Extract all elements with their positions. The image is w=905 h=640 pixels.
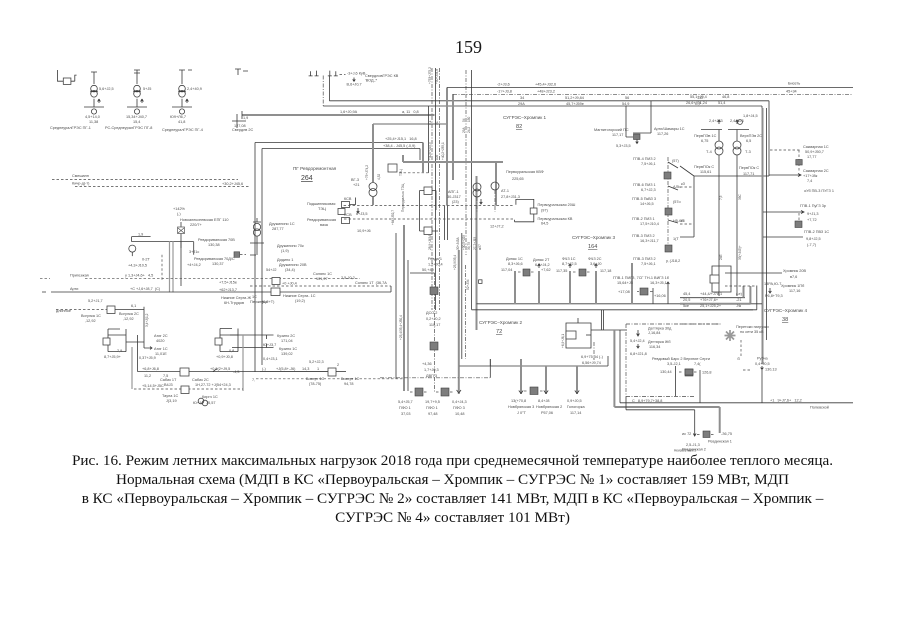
transformer winding (179, 85, 186, 92)
svg-text:+45,4+J32,6: +45,4+J32,6 (535, 83, 556, 87)
wire from L4 down (428, 106, 430, 173)
svg-text:0,8: 0,8 (229, 349, 234, 353)
svg-text:5,2+J2,3: 5,2+J2,3 (309, 360, 324, 364)
svg-text:⊙: ⊙ (737, 357, 740, 361)
svg-text:27,8+J31,3: 27,8+J31,3 (501, 195, 520, 199)
svg-text:Новоалексеевская ЕПГ 110: Новоалексеевская ЕПГ 110 (180, 218, 228, 222)
svg-text:а, 11 0,8: а, 11 0,8 (402, 110, 419, 114)
wire (dashed) (465, 265, 467, 359)
wire (thick feeder) (422, 143, 424, 174)
svg-text:ДВП 3: ДВП 3 (426, 374, 437, 378)
wire (dashed) (344, 218, 515, 220)
lower cross line and PFO loads (380, 377, 490, 379)
svg-text:Динас 2Т: Динас 2Т (533, 258, 550, 262)
wire (90, 90, 98, 92)
svg-text:(23): (23) (452, 200, 459, 204)
svg-text:+17+J8к: +17+J8к (803, 174, 818, 178)
transformer winding (179, 91, 186, 98)
Sakmarnaya 2S (769, 174, 801, 177)
svg-text:3,5-J2,1: 3,5-J2,1 (667, 362, 681, 366)
svg-text:11,2: 11,2 (144, 374, 151, 378)
transformer winding (733, 141, 741, 149)
wire (115, 309, 144, 311)
svg-text:Ревдориванская 70Д/С: Ревдориванская 70Д/С (194, 257, 235, 261)
svg-text:ПервПОк С: ПервПОк С (739, 166, 759, 170)
svg-text:6,9+J4,2: 6,9+J4,2 (535, 263, 550, 267)
transformer winding (91, 91, 98, 98)
transformer VG-3 (369, 183, 377, 191)
svg-text:33(+J45)+: 33(+J45)+ (738, 245, 742, 260)
svg-text:Ревдориванская 70В: Ревдориванская 70В (198, 238, 235, 242)
svg-text:45+34: 45+34 (786, 90, 797, 94)
wire (178, 228, 184, 233)
svg-text:3С: 3С (435, 120, 439, 125)
svg-text:ВерхПЭв 2С: ВерхПЭв 2С (740, 134, 762, 138)
wire (91, 72, 97, 84)
transformer PG-8 (126, 70, 151, 124)
svg-text:0,37+J5,9: 0,37+J5,9 (139, 356, 156, 360)
svg-text:(,): (,) (177, 212, 181, 216)
wire (668, 162, 678, 168)
svg-text:Пригезжая: Пригезжая (70, 274, 89, 278)
svg-text:ГПВ-4 ПИЗ 2: ГПВ-4 ПИЗ 2 (633, 157, 656, 161)
transformer winding (134, 85, 141, 92)
wire (dashed) (798, 213, 800, 221)
svg-text:Вогулка 1С: Вогулка 1С (81, 314, 101, 318)
svg-text:+44,4/+J78,1: +44,4/+J78,1 (700, 292, 722, 296)
svg-text:(19,2): (19,2) (295, 299, 306, 303)
load box (703, 431, 710, 438)
svg-text:19,7+9,5: 19,7+9,5 (425, 400, 440, 404)
svg-text:-72 +J(54+24,3: -72 +J(54+24,3 (205, 383, 231, 387)
gray feeder down E (452, 94, 454, 180)
svg-text:Р6,8+Т9,3: Р6,8+Т9,3 (765, 294, 783, 298)
svg-text:0,4+J3,1: 0,4+J3,1 (263, 357, 278, 361)
wire (thick feeder) (680, 303, 751, 305)
load box (665, 245, 672, 252)
svg-text:Полевской: Полевской (810, 406, 829, 410)
wire to Polevskoy thin (620, 330, 853, 403)
schematic groups inserted here (50, 69, 253, 132)
svg-text:+40,2+J35,1: +40,2+J35,1 (441, 142, 445, 160)
svg-text:СУГРЭС–Хромпик 3: СУГРЭС–Хромпик 3 (572, 235, 615, 240)
svg-text:(57о: (57о (673, 200, 681, 204)
svg-text:ГПВ-3 ПИЗ 2: ГПВ-3 ПИЗ 2 (633, 257, 656, 261)
Revda column (424, 187, 432, 195)
svg-text:-4,5: -4,5 (233, 370, 240, 374)
load box (430, 342, 438, 350)
svg-text:Ю+J4: Ю+J4 (193, 401, 203, 405)
wire (180, 222, 182, 248)
svg-text:ГПВ-1 ПИГЗ, 7СГ ТН-1 ВИГЗ 1б: ГПВ-1 ПИГЗ, 7СГ ТН-1 ВИГЗ 1б (613, 276, 670, 280)
wire (336, 371, 346, 373)
svg-text:14,3: 14,3 (302, 367, 309, 371)
svg-text:+J(5,8+-J6): +J(5,8+-J6) (276, 367, 296, 371)
svg-text:ГПВ-2 ПВЗ 1С: ГПВ-2 ПВЗ 1С (804, 230, 829, 234)
svg-text:30+J45А: 30+J45А (456, 236, 460, 250)
wire (636, 140, 639, 144)
svg-text:20,5: 20,5 (683, 298, 690, 302)
wire (dashed) (593, 342, 595, 360)
bus ticks SverdlovGRES (309, 71, 319, 76)
svg-text:СУГРЭС–Хромпик 2: СУГРЭС–Хромпик 2 (479, 320, 522, 325)
svg-text:27,7+J15: 27,7+J15 (473, 237, 477, 250)
switch box (181, 386, 189, 394)
svg-text:75,57: 75,57 (206, 401, 216, 405)
svg-text:130,38: 130,38 (208, 243, 220, 247)
svg-text:у, (J18,2: у, (J18,2 (666, 259, 680, 263)
svg-text:117,26: 117,26 (657, 132, 668, 136)
svg-text:5,1: 5,1 (428, 120, 432, 125)
svg-text:0,4+J4,3: 0,4+J4,3 (452, 400, 467, 404)
svg-text:Таула 1С: Таула 1С (162, 394, 179, 398)
svg-text:Магнитогорский ПС: Магнитогорский ПС (594, 128, 629, 132)
svg-text:1,6+J0,9А: 1,6+J0,9А (340, 110, 358, 114)
Prigezzhaya dashed line (40, 278, 360, 280)
wire (255, 143, 262, 293)
svg-text:2: 2 (337, 363, 339, 367)
svg-text:51,4: 51,4 (718, 101, 725, 105)
wire (dashed) (740, 340, 742, 356)
svg-text:109: 109 (435, 154, 439, 160)
svg-text:115,61: 115,61 (700, 170, 711, 174)
load box (685, 369, 693, 376)
switch box (63, 78, 71, 84)
svg-text:СреднеуралГРЭС ПГ-4: СреднеуралГРЭС ПГ-4 (162, 128, 203, 132)
small feeder with circle (132, 237, 151, 242)
Sabik bus y371.6 (138, 371, 328, 373)
wire (766, 108, 768, 340)
svg-text:Дружинино 70к: Дружинино 70к (277, 244, 304, 248)
svg-text:Хромпик 1Пб: Хромпик 1Пб (781, 284, 805, 288)
bracket and load inside region (675, 366, 677, 396)
wire (607, 356, 609, 366)
svg-text:5+J5: 5+J5 (143, 87, 151, 91)
wire (569, 264, 572, 268)
dashed line 286 (250, 285, 391, 287)
svg-text:0,2+J0,2: 0,2+J0,2 (426, 317, 441, 321)
load box (664, 172, 671, 179)
svg-text:ХСВ: ХСВ (344, 213, 352, 217)
load box (634, 134, 641, 140)
svg-text:130,37: 130,37 (212, 262, 224, 266)
wire (637, 330, 640, 336)
svg-text:СвердловГРЭС КВ: СвердловГРЭС КВ (365, 74, 399, 78)
transformer winding (473, 189, 481, 197)
svg-text:СУГРЭС–Хромпик 1: СУГРЭС–Хромпик 1 (503, 115, 546, 120)
svg-text:В4J3: В4J3 (164, 383, 173, 387)
svg-text:Солянс 1С: Солянс 1С (313, 272, 332, 276)
svg-text:264: 264 (301, 175, 313, 182)
svg-text:6,9+75,34 (-): 6,9+75,34 (-) (581, 355, 604, 359)
svg-text:8,4+J8: 8,4+J8 (538, 399, 550, 403)
svg-text:(1,9): (1,9) (281, 249, 290, 253)
wire (668, 220, 678, 223)
svg-text:56: 56 (625, 96, 629, 100)
svg-text:+753+J75,2: +753+J75,2 (428, 67, 432, 84)
svg-text:1,9: 1,9 (138, 233, 143, 237)
svg-text:+0 +J0,4: +0 +J0,4 (282, 282, 297, 286)
svg-text:+142%: +142% (173, 207, 186, 211)
svg-text:54: 54 (462, 118, 466, 122)
line L2 dashed (453, 93, 853, 95)
svg-text:Первоуральская КВФ: Первоуральская КВФ (506, 170, 544, 174)
Ufa right box (220, 329, 238, 352)
svg-text:41,8: 41,8 (178, 120, 185, 124)
svg-text:Сакмарная 1С: Сакмарная 1С (803, 145, 829, 149)
svg-text:8,3+J6,6: 8,3+J6,6 (508, 262, 523, 266)
wire Revda drop (410, 272, 435, 274)
svg-text:Кузино 1С: Кузино 1С (279, 347, 297, 351)
wire (141, 99, 144, 103)
svg-text:13РА,Ю-7: 13РА,Ю-7 (764, 282, 781, 286)
svg-text:Вогулка 2С: Вогулка 2С (119, 312, 139, 316)
svg-text:29А: 29А (518, 102, 525, 106)
svg-text:АТ-1: АТ-1 (501, 189, 509, 193)
svg-text:2,5-J0,2: 2,5-J0,2 (341, 276, 355, 280)
svg-text:1: 1 (317, 367, 319, 371)
svg-text:в7,6: в7,6 (790, 275, 797, 279)
svg-text:Ю+J3,7: Ю+J3,7 (263, 343, 276, 347)
wire (144, 347, 152, 350)
switch box (342, 218, 350, 224)
svg-text:ГПВ-3 ПИЗ 2: ГПВ-3 ПИЗ 2 (632, 234, 655, 238)
corridor vertical wire B (435, 68, 437, 310)
wire (dashed) (75, 186, 250, 188)
wire (736, 155, 738, 296)
wire (dashed) (256, 378, 404, 380)
load box (795, 221, 802, 228)
svg-text:длинное: длинное (56, 309, 71, 313)
wire (761, 366, 764, 370)
wire (dashed) (434, 273, 436, 392)
svg-text:Первоуральск ТЭЦ: Первоуральск ТЭЦ (401, 183, 405, 212)
wire (328, 71, 338, 76)
svg-text:+4,36: +4,36 (422, 362, 432, 366)
Revdinskaya feeders (693, 410, 696, 436)
wire (dashed) (573, 271, 577, 273)
wire (718, 155, 720, 296)
wire down-left pair (322, 76, 324, 107)
svg-text:+16,06: +16,06 (654, 294, 666, 298)
wire lower branch (626, 397, 695, 410)
thick gray pair right (762, 108, 764, 364)
wire (dashed) (161, 255, 163, 280)
wire (763, 211, 804, 214)
svg-text:38: 38 (782, 317, 788, 323)
svg-text:С 8,9+79,7+38,8: С 8,9+79,7+38,8 (632, 399, 662, 403)
load box (796, 160, 802, 166)
wire (725, 272, 782, 274)
svg-text:ваза: ваза (320, 223, 329, 227)
svg-text:Арти/Шамары 1С: Арти/Шамары 1С (654, 127, 685, 131)
svg-text:Перетоки нагрузки: Перетоки нагрузки (736, 325, 769, 329)
svg-text:9,8+J2,5: 9,8+J2,5 (806, 237, 821, 241)
svg-text:139,02: 139,02 (281, 352, 293, 356)
load box (441, 388, 449, 396)
svg-text:Ревдовый Барс 2 Верхние Серги: Ревдовый Барс 2 Верхние Серги (652, 357, 710, 361)
svg-text:АПГ-1: АПГ-1 (448, 190, 459, 194)
svg-text:5,4+J5,7: 5,4+J5,7 (398, 400, 413, 404)
bottom bus y366 (460, 365, 609, 367)
svg-text:ГПВ-2 ПИЗ 1: ГПВ-2 ПИЗ 1 (632, 217, 655, 221)
svg-text:10,48: 10,48 (455, 412, 465, 416)
svg-text:14+J6,5: 14+J6,5 (640, 202, 654, 206)
wire (761, 370, 763, 403)
svg-text:1,2+J0,4: 1,2+J0,4 (428, 263, 443, 267)
wire (756, 286, 758, 310)
svg-text:3+J1с: 3+J1с (189, 250, 199, 254)
wire (dashed) (240, 254, 246, 256)
svg-text:15,4: 15,4 (133, 120, 140, 124)
wire (127, 99, 147, 107)
Verkhnie Sergi loads (685, 369, 693, 375)
nested loop top lines (255, 142, 423, 144)
gray corridor below G (476, 176, 478, 330)
wire (420, 191, 437, 232)
thick gray line y115 (242, 114, 435, 116)
wire (133, 90, 141, 92)
dash-dot region boundary (626, 324, 722, 397)
svg-text:7,5+J6,1: 7,5+J6,1 (641, 162, 656, 166)
transformer winding (253, 223, 260, 230)
wire (586, 334, 591, 336)
svg-text:150: 150 (467, 116, 471, 122)
wire (dashed) (587, 271, 591, 273)
Vogulka feeder (56, 309, 107, 311)
svg-text:Смешанн: Смешанн (72, 174, 89, 178)
wire (353, 78, 356, 82)
wire (dashed) (344, 205, 514, 207)
svg-text:64,5: 64,5 (541, 222, 548, 226)
svg-text:2,4+40,9: 2,4+40,9 (187, 87, 202, 91)
svg-text:+6,8+J6,8: +6,8+J6,8 (142, 367, 159, 371)
svg-text:,12,92: ,12,92 (85, 319, 96, 323)
svg-text:7,5+J6,1: 7,5+J6,1 (641, 262, 656, 266)
wire (dashed) (340, 74, 346, 76)
stub transformer right (235, 69, 248, 75)
svg-text:5,2+J1,7: 5,2+J1,7 (88, 299, 103, 303)
svg-text:+84+J52,7: +84+J52,7 (391, 210, 395, 225)
wire (dashed) (524, 390, 527, 392)
svg-text:126,8: 126,8 (702, 371, 712, 375)
svg-text:+25,4/35,4+J30,4: +25,4/35,4+J30,4 (399, 315, 403, 340)
wire (420, 230, 439, 232)
wire box-X stem down (180, 242, 182, 286)
svg-text:ГПВ-1 ПуГЗ 3р: ГПВ-1 ПуГЗ 3р (800, 204, 826, 208)
svg-text:ПервПЭв 1С: ПервПЭв 1С (694, 134, 717, 138)
svg-text:10,9+J6: 10,9+J6 (357, 229, 371, 233)
svg-text:Дегтярка Жб: Дегтярка Жб (648, 340, 671, 344)
Sakmarnaya 1S (770, 149, 801, 151)
svg-text:ТЭЦ: ТЭЦ (318, 207, 326, 211)
switch box (180, 368, 189, 376)
svg-text:ПервПОк С: ПервПОк С (694, 165, 714, 169)
svg-text:45,4: 45,4 (683, 292, 690, 296)
svg-text:5,6+J2,5: 5,6+J2,5 (99, 87, 114, 91)
wire Degtyarka link (591, 329, 627, 331)
switch box (566, 331, 576, 339)
switch box (271, 288, 280, 296)
wire (dashed) (410, 391, 454, 393)
svg-text:Первоуральская КВ: Первоуральская КВ (538, 217, 573, 221)
Degtyarka node box (566, 318, 591, 348)
svg-text:130,13: 130,13 (765, 368, 777, 372)
wire (699, 370, 701, 403)
svg-text:Подшипниковая: Подшипниковая (307, 202, 335, 206)
svg-text:6,7+J2,3: 6,7+J2,3 (641, 188, 656, 192)
svg-text:Первоуральская 20Ш: Первоуральская 20Ш (538, 203, 576, 207)
svg-text:6,75: 6,75 (701, 139, 708, 143)
svg-text:J 0°Т: J 0°Т (517, 411, 527, 415)
svg-text:117,04: 117,04 (501, 268, 512, 272)
svg-text:82: 82 (516, 124, 522, 130)
svg-text:Ревдинская 1: Ревдинская 1 (708, 440, 732, 444)
Dinas 2T feeder (538, 271, 540, 304)
Taula dash line (134, 388, 243, 390)
corridor vertical dashed line C (439, 68, 441, 310)
wire pair below dash (445, 206, 448, 240)
Peretoki star (680, 323, 720, 325)
wire (thick feeder) (719, 407, 721, 433)
svg-text:ПФО 1: ПФО 1 (426, 406, 438, 410)
svg-text:+4+J4,2: +4+J4,2 (187, 263, 201, 267)
right corridor verticals (458, 250, 460, 394)
wire (dashed) (725, 285, 756, 287)
svg-text:11,01Е: 11,01Е (155, 352, 167, 356)
transformer PG-4 (170, 70, 202, 124)
wire (178, 90, 186, 92)
wire (dashed) (697, 434, 715, 436)
wire (328, 76, 330, 101)
svg-text:54+J2: 54+J2 (266, 268, 276, 272)
svg-text:(78-75): (78-75) (309, 382, 322, 386)
transformer winding (134, 109, 139, 114)
line L1 Bisert (447, 87, 853, 89)
svg-text:кЗ: кЗ (681, 182, 686, 186)
svg-text:Нижние Серги-Ж: Нижние Серги-Ж (221, 296, 252, 300)
svg-text:101,97: 101,97 (316, 277, 328, 281)
wire (479, 280, 482, 284)
gen T-4 (701, 120, 722, 142)
switch box (342, 202, 350, 208)
svg-text:ВГ-3: ВГ-3 (351, 178, 359, 182)
svg-text:2,4+J23: 2,4+J23 (730, 119, 744, 123)
svg-text:СреднеуралГРЭС ПГ-1: СреднеуралГРЭС ПГ-1 (50, 126, 91, 130)
svg-text:ФЧЗ 1С: ФЧЗ 1С (562, 257, 576, 261)
svg-text:J,16,84: J,16,84 (648, 331, 660, 335)
svg-text:5ке: 5ке (683, 304, 689, 308)
Druzhinino transformer (253, 218, 261, 222)
svg-text:13(+70,8: 13(+70,8 (511, 399, 526, 403)
svg-text:+5,14,5+J5С: +5,14,5+J5С (142, 384, 164, 388)
transformer winding (369, 189, 377, 197)
svg-text:Ревдориванская: Ревдориванская (307, 218, 336, 222)
svg-text:гЗ: гЗ (681, 219, 685, 223)
transformer winding (179, 109, 184, 114)
load box right (234, 252, 240, 257)
svg-text:Новбрянская 3: Новбрянская 3 (508, 405, 534, 409)
svg-text:+0,9(2+J9,5: +0,9(2+J9,5 (210, 367, 230, 371)
svg-text:164: 164 (588, 244, 597, 250)
svg-text:+76+J7,6+: +76+J7,6+ (700, 298, 719, 302)
svg-text:(-): (-) (262, 367, 267, 371)
svg-text:171,04: 171,04 (281, 339, 293, 343)
wire (134, 70, 140, 84)
transformer winding (473, 183, 481, 191)
svg-text:+7,62: +7,62 (541, 268, 551, 272)
svg-text:Дидино 1: Дидино 1 (277, 258, 293, 262)
